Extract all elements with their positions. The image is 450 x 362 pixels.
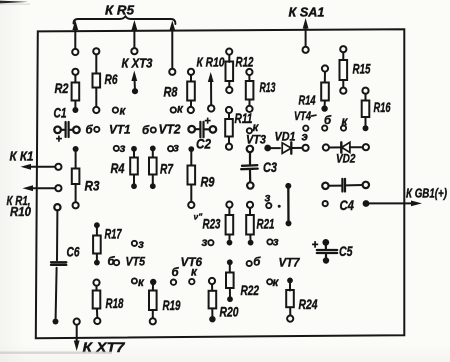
svg-text:VT6: VT6 [181, 255, 203, 269]
resistor R3 [72, 146, 100, 208]
net К R5 arrow 3 [169, 21, 175, 75]
svg-text:VT5: VT5 [126, 255, 146, 269]
net К R5 bracket wire [74, 16, 176, 24]
svg-text:R8: R8 [164, 84, 178, 100]
capacitor C5 [312, 239, 353, 264]
net К ХТ3 arrow [131, 71, 138, 95]
svg-text:+: + [204, 115, 211, 127]
transistor VT3 [246, 122, 266, 147]
svg-text:К R10: К R10 [197, 55, 226, 70]
resistor R4 [111, 146, 138, 189]
transistor VT7 [247, 237, 301, 290]
svg-text:К SA1: К SA1 [289, 6, 325, 20]
svg-text:VT3: VT3 [246, 133, 266, 147]
resistor R21 [246, 202, 274, 246]
capacitor C6 [51, 204, 80, 324]
diode VD2 [323, 142, 369, 165]
svg-text:C2: C2 [196, 136, 211, 152]
svg-text:К К1: К К1 [10, 149, 34, 164]
svg-text:VD1: VD1 [275, 130, 296, 144]
svg-text:R19: R19 [163, 297, 181, 313]
net К GB1 arrow [363, 200, 422, 207]
net К SA1 arrow [303, 18, 309, 53]
svg-text:R18: R18 [106, 295, 124, 311]
svg-text:R11: R11 [235, 110, 253, 126]
svg-text:C3: C3 [263, 159, 277, 175]
svg-text:к: к [273, 277, 280, 289]
resistor R24 [286, 278, 317, 322]
svg-text:R20: R20 [220, 304, 239, 320]
resistor R15 [340, 46, 371, 94]
transistor VT1 [86, 106, 131, 156]
net К R5 arrow 1 [72, 20, 78, 55]
resistor R23 [203, 202, 234, 246]
diode VD1 [264, 130, 308, 154]
net К К1 arrow [21, 164, 62, 170]
net К R5 arrow 2 [131, 20, 137, 54]
resistor R20 [209, 278, 239, 323]
svg-text:к: к [120, 106, 127, 118]
resistor R18 [93, 280, 124, 325]
resistor R2 [55, 69, 80, 113]
resistor R13 [246, 69, 276, 112]
resistor R22 [226, 259, 259, 302]
svg-text:R23: R23 [203, 216, 221, 232]
svg-text:R6: R6 [105, 71, 118, 87]
resistor R14 [299, 65, 329, 111]
svg-text:з: з [173, 143, 179, 155]
svg-text:К GB1(+): К GB1(+) [406, 187, 447, 201]
svg-text:К R5: К R5 [105, 4, 135, 18]
resistor R12 [226, 49, 254, 94]
resistor R17 [93, 222, 122, 265]
svg-text:з: з [138, 239, 144, 251]
svg-text:к: к [138, 277, 145, 289]
wire jumper [285, 183, 291, 227]
resistor R19 [149, 279, 181, 325]
svg-text:R17: R17 [105, 226, 123, 242]
svg-text:R12: R12 [236, 54, 254, 70]
resistor R6 [93, 48, 118, 113]
net К R10 arrow [208, 72, 215, 112]
svg-text:R2: R2 [55, 80, 69, 96]
capacitor C1 [54, 105, 80, 146]
net К R1 R10 arrow [23, 185, 62, 191]
resistor R8 [164, 69, 195, 113]
svg-text:C1: C1 [54, 105, 67, 121]
svg-text:R24: R24 [299, 296, 318, 312]
svg-text:VT7: VT7 [279, 256, 301, 270]
svg-text:VD2: VD2 [336, 152, 356, 166]
net К ХТ7 arrow [74, 319, 80, 352]
capacitor C2 [188, 115, 216, 151]
svg-text:б: б [142, 125, 150, 137]
svg-text:R13: R13 [260, 79, 276, 95]
svg-text:R21: R21 [257, 216, 275, 232]
svg-text:з: з [273, 237, 279, 249]
transistor VT4 [294, 109, 349, 144]
svg-text:VT1: VT1 [109, 123, 131, 137]
scan artifact top edge [0, 1, 28, 4]
scan smudge bottom [0, 352, 112, 354]
svg-text:C5: C5 [339, 243, 353, 259]
svg-text:б: б [253, 257, 261, 269]
svg-text:VT4: VT4 [294, 109, 311, 123]
svg-text:э: э [302, 132, 308, 144]
capacitor C3 [241, 146, 277, 189]
svg-text:к: к [177, 104, 184, 116]
svg-text:VT2: VT2 [159, 123, 181, 137]
svg-text:б: б [86, 125, 94, 137]
resistor R7 [149, 146, 174, 190]
node э near R21 [265, 193, 281, 209]
svg-text:б: б [172, 267, 180, 279]
svg-text:C6: C6 [67, 244, 80, 260]
resistor R16 [362, 88, 391, 132]
svg-text:R9: R9 [201, 174, 215, 190]
resistor R9 [188, 146, 215, 208]
transistor VT2 [142, 104, 184, 155]
board outline [36, 29, 405, 338]
transistor VT6 [171, 212, 214, 285]
svg-text:R10: R10 [10, 205, 31, 219]
node pad near C4 [323, 201, 328, 206]
capacitor C4 [322, 179, 369, 213]
svg-text:C4: C4 [340, 197, 355, 213]
svg-text:R3: R3 [85, 178, 100, 194]
svg-text:+: + [312, 240, 319, 252]
svg-text:з: з [120, 143, 126, 155]
resistor R11 [225, 107, 252, 150]
svg-text:R4: R4 [111, 160, 125, 176]
svg-text:R14: R14 [299, 94, 316, 108]
svg-text:з: з [202, 237, 208, 249]
svg-text:R15: R15 [353, 61, 371, 77]
svg-text:К ХТ3: К ХТ3 [122, 57, 153, 71]
svg-text:R16: R16 [374, 99, 391, 115]
svg-text:+: + [56, 134, 63, 146]
svg-text:R7: R7 [160, 161, 174, 177]
transistor VT5 [108, 239, 146, 289]
svg-text:R22: R22 [241, 282, 260, 298]
svg-text:ν": ν" [194, 212, 204, 222]
